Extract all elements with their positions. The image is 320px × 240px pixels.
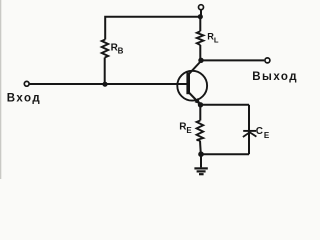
wire: ground stem bbox=[200, 154, 202, 167]
terminal: supply (top) bbox=[199, 5, 204, 10]
transistor base bar bbox=[186, 72, 190, 94]
left scan edge bbox=[0, 0, 1, 179]
wire: RE bottom lead bbox=[199, 141, 202, 155]
node: base junction bbox=[102, 82, 107, 87]
capacitor C_E bbox=[243, 131, 257, 137]
svg-text:Выход: Выход bbox=[252, 71, 298, 83]
svg-text:C: C bbox=[256, 126, 263, 137]
wire: base rail from input to transistor bbox=[29, 83, 187, 85]
resistor R_E bbox=[197, 121, 204, 141]
svg-text:E: E bbox=[186, 126, 192, 135]
wire: bypass loop bottom bbox=[201, 153, 249, 155]
wire: top terminal stub bbox=[200, 10, 202, 17]
svg-text:E: E bbox=[264, 131, 270, 140]
resistor R_B bbox=[102, 40, 109, 58]
emitter arrow bbox=[195, 98, 201, 105]
svg-text:L: L bbox=[214, 36, 219, 45]
resistor R_L bbox=[197, 31, 204, 45]
wire: RE top lead bbox=[199, 105, 201, 121]
node: bottom junction bbox=[198, 151, 204, 157]
terminal: input bbox=[24, 81, 29, 86]
wire: RB bottom lead bbox=[104, 58, 106, 85]
ground bbox=[194, 168, 207, 174]
wire: bypass loop right vertical bbox=[248, 105, 250, 154]
svg-text:B: B bbox=[118, 47, 124, 56]
transistor Q1 bbox=[177, 71, 207, 101]
wire: top supply rail bbox=[105, 17, 200, 40]
node: collector junction bbox=[198, 58, 203, 63]
wire: emitter lead diagonal bbox=[188, 92, 200, 105]
node: emitter junction bbox=[198, 102, 203, 107]
wire: RL top lead bbox=[199, 17, 201, 32]
wire: RL bottom lead bbox=[199, 45, 201, 61]
terminal: output bbox=[265, 58, 270, 63]
node: top junction bbox=[198, 14, 203, 19]
wire: collector lead diagonal bbox=[188, 61, 201, 75]
wire: output wire bbox=[201, 59, 264, 61]
svg-text:Вход: Вход bbox=[7, 93, 41, 105]
wire: bypass loop top bbox=[201, 104, 250, 106]
